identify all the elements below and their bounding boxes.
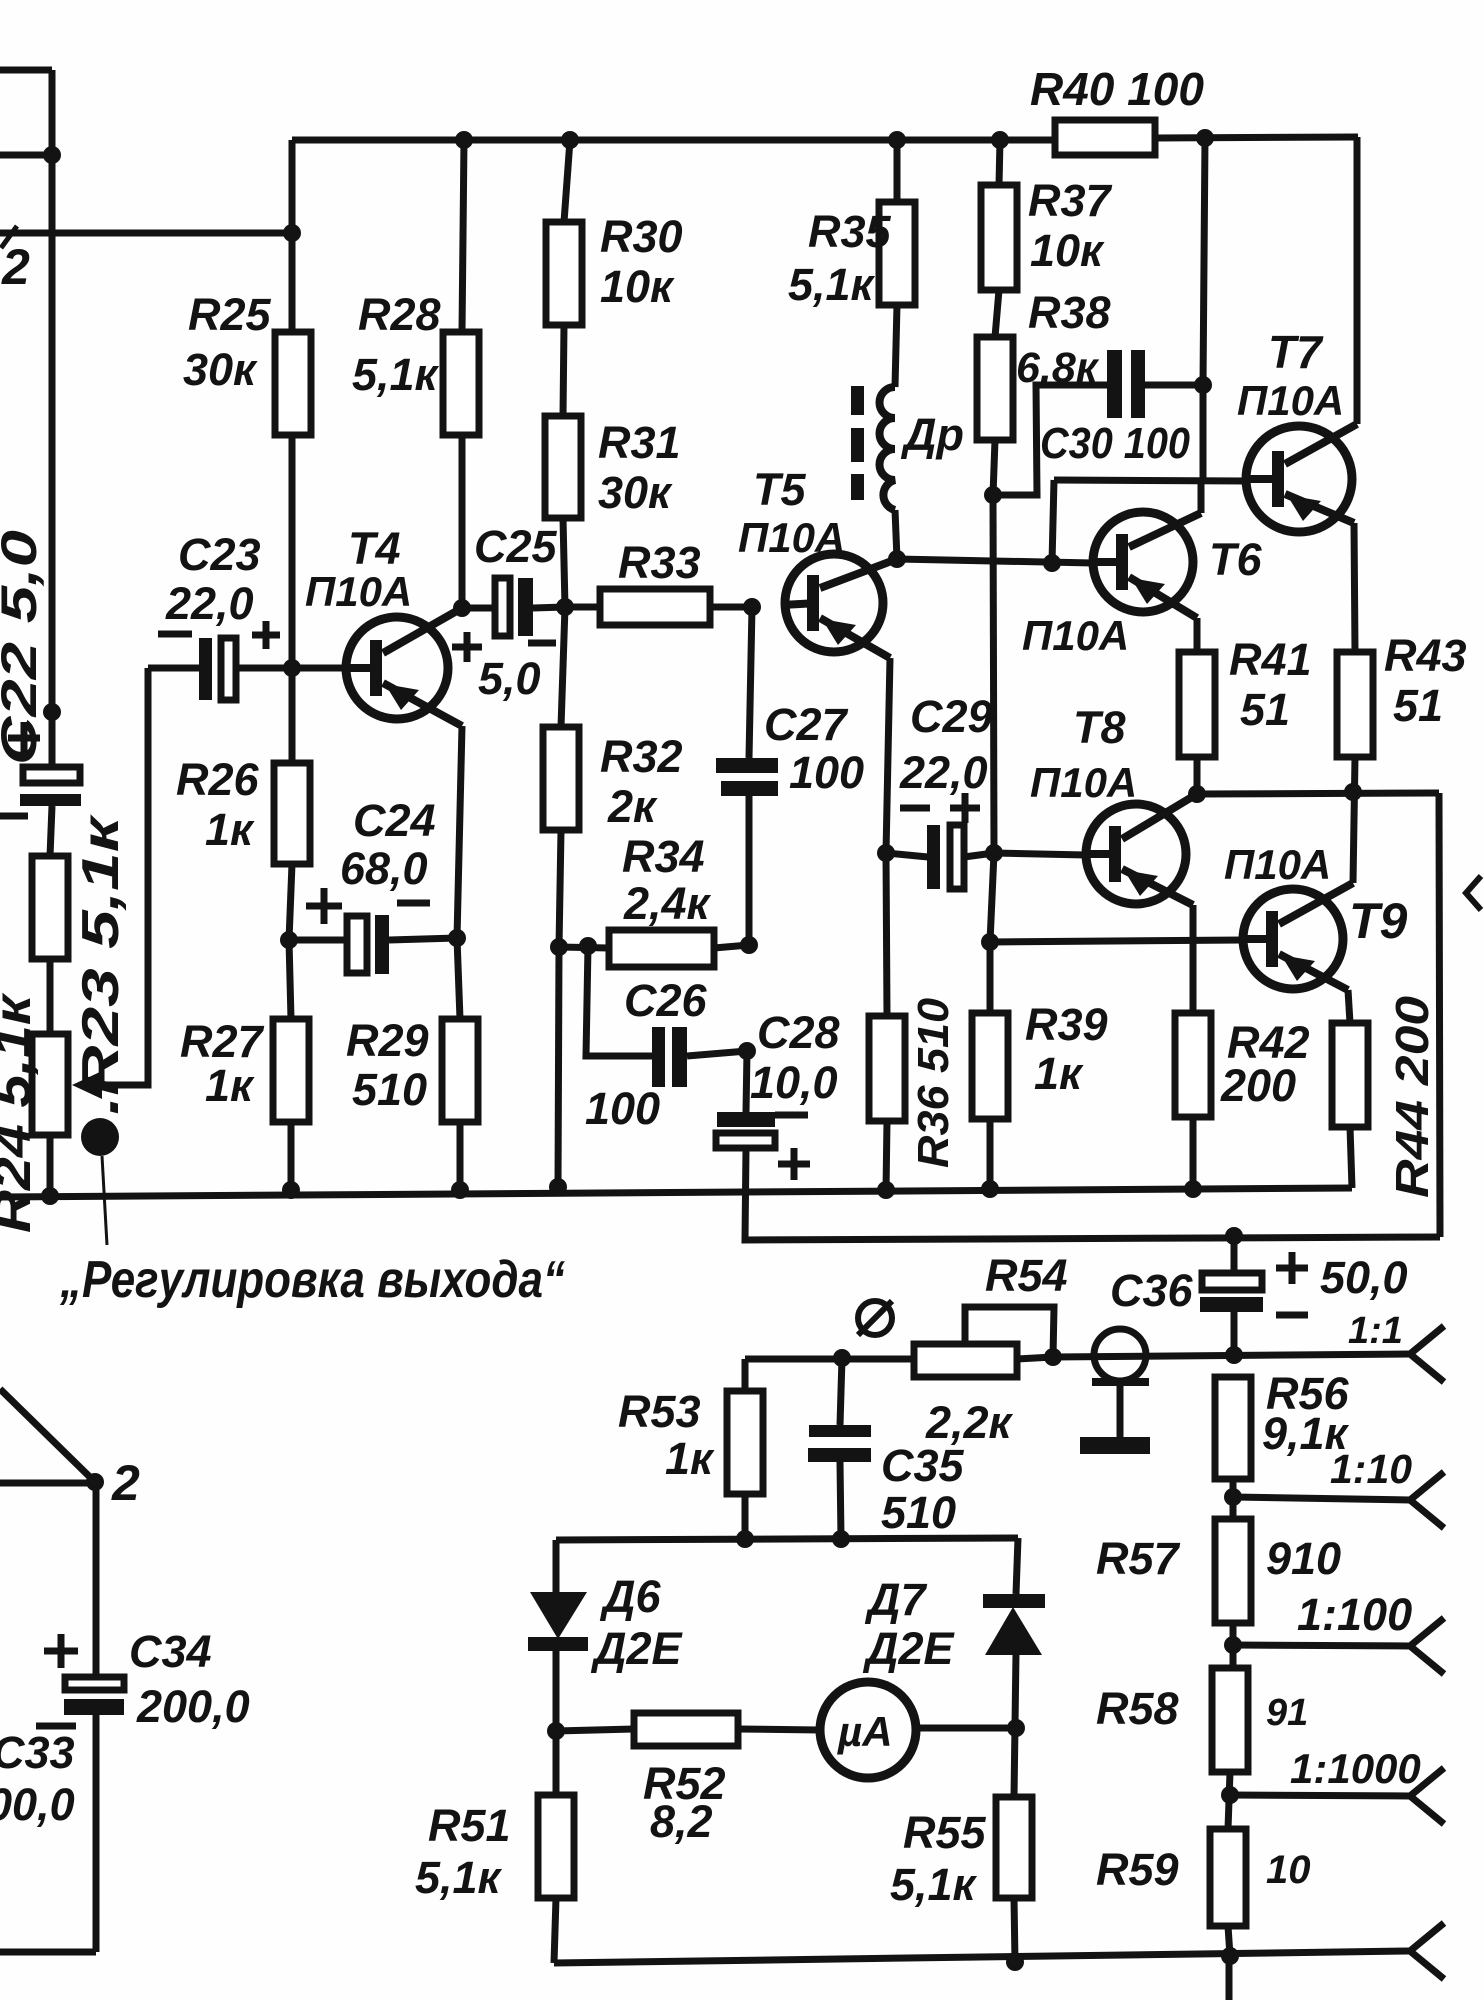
wire R38 bottom lead [993,440,995,495]
svg-text:R51: R51 [428,1800,511,1851]
wire C22 to R23 [50,806,52,856]
transistor T9 П10А [1240,883,1353,990]
svg-text:R57: R57 [1096,1533,1181,1584]
wire C30 right lead [1145,382,1203,389]
svg-text:1к: 1к [1034,1048,1084,1099]
svg-text:R58: R58 [1096,1683,1179,1734]
diode D6 [528,1592,588,1651]
wire tap 1:100 [1233,1645,1410,1646]
resistor R54 trimmer [914,1344,1017,1377]
node junction attenuator bottom [1221,1947,1239,1965]
node junction R34 left [550,938,568,956]
svg-text:10,0: 10,0 [750,1057,838,1108]
node junction T4 collector / C25 left [453,599,471,617]
resistor R55 [996,1797,1032,1898]
resistor R43 [1337,652,1373,757]
svg-text:510: 510 [352,1064,427,1115]
wire C30 stub [993,385,1108,495]
svg-text:R39: R39 [1025,999,1108,1050]
svg-text:30к: 30к [183,344,258,395]
svg-text:П10А: П10А [305,568,412,615]
wire tap 1:10 [1233,1497,1410,1500]
svg-text:5,1к: 5,1к [352,349,440,400]
svg-text:1:10: 1:10 [1330,1446,1412,1492]
label C23 plus [252,621,280,649]
wire T8 base [994,853,1086,855]
wire C36 bottom lead [1231,1312,1238,1355]
wire R29 top lead [457,938,460,1019]
svg-text:Д2Е: Д2Е [862,1623,956,1674]
node junction R38 / C30 stub [984,486,1002,504]
svg-text:R41: R41 [1229,634,1312,685]
svg-text:R38: R38 [1028,287,1111,338]
wire T8 emitter column [1190,905,1197,1013]
transistor T4 П10А [343,608,462,726]
resistor R42 [1175,1013,1211,1117]
svg-text:51: 51 [1240,684,1290,735]
resistor R35 [879,202,915,305]
wire R52 right lead [738,1729,820,1730]
wire diagonal to node 2 [0,1389,95,1482]
svg-text:Т8: Т8 [1073,702,1126,753]
svg-text:2: 2 [1,239,30,295]
node junction left rail y155 [43,146,61,164]
svg-text:5,0: 5,0 [478,653,541,704]
transistor T8 П10А [1083,794,1197,905]
node junction T4 base / C23 [283,659,301,677]
resistor R39 [972,1013,1008,1119]
svg-text:5,1к: 5,1к [788,259,876,310]
capacitor C34 [64,1677,124,1715]
wire top supply bus [292,137,1055,144]
label C29 minus [900,805,930,812]
svg-text:П10А: П10А [1224,841,1331,888]
resistor R59 [1210,1829,1246,1926]
wire C30 rail up [1203,138,1205,385]
wire R55 bottom lead [1014,1898,1015,1962]
svg-text:Д6: Д6 [599,1571,661,1622]
wire C35 bottom lead [840,1462,841,1539]
wire T7 emitter rail [1354,523,1355,652]
connector fork bottom [1410,1923,1444,1979]
svg-text:R29: R29 [346,1015,429,1066]
wire C29 right lead [964,853,994,857]
wire bottom left lead [0,1949,96,1956]
wire C24 left lead [289,937,347,944]
svg-text:R40 100: R40 100 [1030,63,1204,115]
wire R26 top lead [289,668,296,763]
wire R36 bottom lead [886,1121,887,1191]
node junction R55 bottom [1006,1953,1024,1971]
svg-text:200,0: 200,0 [136,1681,250,1732]
wire R27 bottom lead [288,1122,295,1191]
wire R58 bottom lead [1228,1772,1230,1829]
svg-text:5,1к: 5,1к [415,1852,503,1903]
wire C23 right lead [236,665,292,672]
svg-text:R43: R43 [1384,630,1467,681]
wire R25 top lead [289,233,296,332]
svg-text:Т6: Т6 [1209,534,1262,585]
svg-text:Т4: Т4 [348,523,401,574]
wire R43 to T9 collector [1353,757,1355,883]
svg-text:С34: С34 [129,1626,212,1677]
svg-text:„Регулировка выхода“: „Регулировка выхода“ [59,1251,565,1309]
node junction R34 right / C26 [740,936,758,954]
node junction C24 left [280,931,298,949]
svg-text:Д7: Д7 [864,1574,927,1625]
svg-text:R31: R31 [598,417,681,468]
label C28 plus [778,1148,810,1180]
wire D7 top lead [1016,1538,1018,1594]
svg-text:R33: R33 [618,537,701,588]
node junction left rail y712 [43,703,61,721]
svg-text:1:1: 1:1 [1348,1310,1403,1352]
wire R25 bottom to T4 base node [289,435,296,668]
svg-text:51: 51 [1393,680,1443,731]
svg-text:R35: R35 [808,206,892,257]
resistor R37 [981,185,1017,290]
wire C25 right lead [533,607,565,608]
svg-text:30к: 30к [598,467,673,518]
wire C26 to C28 [746,1051,747,1112]
label C22 minus [0,813,28,820]
wire choke bottom lead [895,510,897,559]
svg-text:Т7: Т7 [1268,326,1324,378]
capacitor C26 [652,1027,687,1087]
wire T4 base [292,665,380,672]
capacitor C27 [716,758,778,796]
node junction C26 left tap [579,937,597,955]
wire C34 bottom lead [93,1715,100,1952]
node junction C36 / R56 [1225,1346,1243,1364]
wire R28 top lead [462,140,464,332]
resistor R51 [538,1795,574,1898]
label C24 minus [397,900,430,907]
node junction C35 bottom [832,1530,850,1548]
svg-text:С24: С24 [353,795,436,846]
node junction T5 collector / choke [888,550,906,568]
svg-text:С36: С36 [1110,1265,1194,1316]
wire right output rail [1439,793,1440,1237]
jack circle [1094,1329,1146,1381]
svg-text:R55: R55 [903,1807,987,1858]
svg-text:.R23 5,1к: .R23 5,1к [72,813,130,1115]
wire C26 right lead [687,1051,747,1056]
node adjustment point dot [81,1118,119,1156]
wire C28 bottom feedback line [745,1148,1440,1240]
svg-text:R59: R59 [1096,1844,1179,1895]
wire R33 right lead [710,604,752,611]
wire attenuator stub down [1226,1956,1233,2000]
inductor Dr core dashes [851,386,864,500]
connector fork 1:1 [1410,1326,1444,1382]
wire right rail upper [1354,137,1361,424]
node junction C35 top [833,1349,851,1367]
svg-text:1:100: 1:100 [1297,1589,1412,1640]
wire C29 left lead [886,853,928,857]
wire T4 emitter column [457,726,462,938]
jack stem [1117,1382,1124,1437]
resistor R38 [977,337,1013,440]
node junction bus R36 [877,1181,895,1199]
node junction R41 bottom [1188,785,1206,803]
node junction R54 output [1044,1348,1062,1366]
svg-text:10к: 10к [600,261,675,312]
resistor R28 [443,332,479,435]
svg-text:R54: R54 [985,1250,1068,1301]
resistor R52 [634,1713,738,1746]
wire C27 top lead [749,607,752,758]
node junction bus R42 [1184,1180,1202,1198]
wire output 1:1 line [1053,1354,1410,1357]
resistor R26 [274,763,310,864]
capacitor C36 [1200,1273,1263,1312]
svg-text:2к: 2к [607,781,658,832]
node junction T6 base riser [1043,554,1061,572]
node junction R40 right [1196,129,1214,147]
wire R54 right lead [1017,1357,1053,1359]
wire left rail [49,70,56,767]
resistor R32 [543,727,579,830]
svg-text:С27: С27 [764,699,849,750]
svg-text:С23: С23 [178,529,261,580]
wire D6 top lead [553,1540,560,1592]
wire R54 wiper arm [965,1307,1054,1357]
wire R29 bottom lead [457,1122,464,1191]
node junction C25 right / R33 [556,598,574,616]
transistor T6 П10А [1090,512,1201,618]
wire C34 top lead [93,1482,100,1677]
label C25 minus [528,640,556,647]
wire bus left drop [289,140,296,233]
svg-text:1к: 1к [205,1060,255,1111]
svg-text:10к: 10к [1030,225,1105,276]
wire R37-R38 link [995,290,999,337]
node junction bus R29 [451,1181,469,1199]
transistor T5 П10А [782,554,897,658]
wire R31 bottom lead [563,518,565,607]
wire top supply bus right [1155,137,1358,138]
wire R44 bottom lead [1350,1127,1352,1188]
resistor R57 [1215,1519,1251,1623]
svg-text:510: 510 [881,1487,956,1538]
svg-text:С29: С29 [910,691,993,742]
node junction C29 left [877,844,895,862]
wire R37 top lead [999,140,1000,185]
node junction C26 right [738,1042,756,1060]
svg-text:С28: С28 [757,1007,840,1058]
resistor R30 [546,222,582,325]
wire R56 bottom lead [1230,1479,1237,1519]
svg-text:П10А: П10А [1030,759,1137,806]
resistor R33 [600,589,710,625]
node junction C29 right / T8 base [985,844,1003,862]
wire R35 bottom lead [895,305,897,387]
wire T5 emitter column [886,658,890,853]
transistor T7 П10А [1243,424,1357,532]
svg-text:R26: R26 [176,754,260,805]
node junction bus R39 [981,1180,999,1198]
wire diode top line [556,1538,1018,1540]
node junction tap 1:10 [1224,1488,1242,1506]
node junction T9 base / R39 [981,933,999,951]
capacitor C22 [20,767,81,806]
node junction C24 right [448,929,466,947]
wire C28 line C36 junction [1225,1227,1243,1245]
wire C25 left lead [462,605,495,612]
svg-text:200,0: 200,0 [0,1779,75,1830]
node junction T5 base / C27 [743,598,761,616]
node 2 junction lower [86,1473,104,1491]
wire R42 bottom lead [1190,1117,1197,1190]
wire R34 right lead [714,945,749,948]
meter uA [820,1682,916,1778]
svg-text:22,0: 22,0 [165,578,254,629]
capacitor C35 [808,1425,871,1462]
label C34 plus [44,1634,78,1668]
wire T9 emitter lead [1348,990,1350,1023]
svg-text:Т5: Т5 [753,464,806,515]
svg-text:91: 91 [1266,1692,1308,1734]
jack sleeve bar [1092,1378,1149,1386]
wire R30-R31 link [563,325,564,416]
svg-text:R25: R25 [188,289,272,340]
wire T7 base line [1054,480,1246,481]
svg-text:10: 10 [1266,1848,1311,1892]
svg-text:Т9: Т9 [1349,893,1408,949]
svg-text:Др: Др [900,409,964,460]
svg-text:R24 5,1к: R24 5,1к [0,992,42,1233]
wire R32 bottom lead [559,830,561,947]
capacitor C25 [495,578,533,636]
ground chassis bar [1080,1437,1150,1454]
svg-text:R37: R37 [1028,175,1113,226]
node junction D6 / R52 [547,1722,565,1740]
label C24 plus [306,888,342,924]
wire tap 1:1000 [1230,1795,1410,1796]
svg-text:R44 200: R44 200 [1386,996,1438,1198]
svg-text:1к: 1к [665,1433,715,1484]
label C29 plus [950,793,980,823]
wire R39 top lead [987,942,994,1013]
node junction R30 top [561,131,579,149]
connector fork 1:1000 [1410,1768,1444,1824]
label C28 minus [775,1112,808,1119]
node junction C30 / R40 rail [1194,376,1212,394]
inductor Dr choke [879,387,895,510]
wire R41 bottom lead [1194,757,1201,795]
svg-text:1к: 1к [205,804,255,855]
label C36 minus [1276,1312,1308,1319]
wire C36 top lead [1231,1236,1238,1273]
diode D7 [983,1594,1045,1655]
svg-text:50,0: 50,0 [1320,1252,1408,1303]
label C36 plus [1276,1252,1308,1284]
wire input lead top-left [0,67,52,74]
node junction bus R32 [549,1178,567,1196]
svg-text:68,0: 68,0 [340,843,428,894]
svg-text:С26: С26 [624,975,708,1026]
svg-text:8,2: 8,2 [650,1796,713,1847]
svg-text:200: 200 [1220,1060,1296,1111]
wire node-2 horizontal [0,230,292,237]
wire T9 base line [990,940,1243,942]
wire R36 top lead [886,853,887,1016]
svg-text:П10А: П10А [1022,612,1129,659]
wire R39 bottom lead [987,1119,994,1190]
node junction D7 / meter [1007,1719,1025,1737]
resistor R34 [609,930,714,967]
resistor R27 [273,1019,309,1122]
wire R57 bottom lead [1230,1623,1237,1668]
wire bottom bus [0,1188,1352,1197]
node junction R53 bottom [736,1530,754,1548]
wire C23 left lead [148,665,200,672]
connector fork 1:100 [1410,1618,1444,1674]
wire edge tick [1,226,17,248]
resistor R25 [275,332,311,435]
resistor R29 [442,1019,478,1122]
wire R24 bottom lead [47,1135,54,1196]
resistor R44 [1332,1023,1368,1127]
svg-text:2: 2 [111,1455,140,1511]
resistor R58 [1212,1668,1248,1772]
wire output stage top link [1197,793,1439,794]
wire R26 bottom lead [289,864,292,940]
wire R35 top lead [894,140,901,202]
svg-text:R34: R34 [622,831,705,882]
wire meter right lead [917,1725,1016,1732]
svg-text:1:1000: 1:1000 [1290,1745,1421,1792]
svg-text:С30 100: С30 100 [1040,419,1190,468]
node junction tap 1:1000 [1221,1786,1239,1804]
svg-text:R36 510: R36 510 [909,997,958,1168]
svg-text:2,4к: 2,4к [623,878,712,929]
wire R52 left lead [556,1729,634,1731]
node junction R28 top [455,131,473,149]
resistor R36 [869,1016,905,1121]
node junction bus drop [283,224,301,242]
wire T6 emitter lead [1194,618,1201,652]
svg-text:R53: R53 [618,1386,701,1437]
svg-text:С35: С35 [881,1440,965,1491]
svg-text:С22 5,0: С22 5,0 [0,530,47,765]
svg-text:100: 100 [789,747,864,798]
wire C30 rail down [1200,385,1207,481]
wire T6 collector stub [1198,481,1205,513]
wire R33 left lead [565,604,600,611]
svg-text:Д2Е: Д2Е [590,1623,684,1674]
wire R53 top lead [742,1359,749,1391]
wire C26 left loop [586,946,653,1056]
node junction bus left rail [41,1187,59,1205]
node junction tap 1:100 [1224,1636,1242,1654]
node junction R37 top [991,131,1009,149]
wiper arrowhead R24 [72,1071,102,1099]
wire R28 bottom to C25 node [459,435,466,608]
trimmer screw symbol [858,1301,892,1335]
wire R53 top line [745,1356,914,1363]
svg-text:5,1к: 5,1к [890,1859,978,1910]
wire C27 bottom lead [746,796,753,945]
resistor R24 potentiometer [32,1034,68,1135]
resistor R41 [1179,652,1215,757]
svg-text:100: 100 [585,1083,660,1134]
svg-text:П10А: П10А [738,514,845,561]
wire node 2 horizontal [0,1480,95,1487]
capacitor C29 [927,825,964,889]
resistor R53 [727,1391,763,1494]
